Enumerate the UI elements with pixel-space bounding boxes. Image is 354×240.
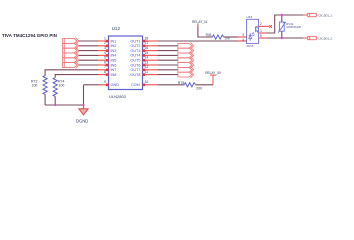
svg-text:CN_DO1_1: CN_DO1_1 <box>319 13 333 17</box>
wire IN7 net to R72 <box>45 70 98 76</box>
svg-text:11: 11 <box>145 70 149 74</box>
svg-text:5: 5 <box>104 56 106 60</box>
wire into R45 <box>206 36 213 38</box>
offpage connector flag IN4 <box>63 52 79 59</box>
pin 13 OUT6 <box>130 60 157 67</box>
offpage connector flag OUT8 <box>178 71 194 78</box>
offpage connector flag OUT4 <box>178 52 194 59</box>
pin 4 opto cathode <box>238 38 247 42</box>
wire OUT7 <box>157 69 178 71</box>
pin 2 opto base with no-connect <box>259 22 272 28</box>
svg-text:IN3: IN3 <box>111 49 117 53</box>
svg-text:10: 10 <box>145 80 149 84</box>
svg-text:18: 18 <box>145 36 149 40</box>
wire ground bus <box>45 104 83 106</box>
junction dot ground bus <box>82 104 84 106</box>
svg-text:OUT2: OUT2 <box>130 44 140 48</box>
junction bottom rail varistor <box>281 37 283 39</box>
wire emitter to bottom rail <box>267 37 304 39</box>
svg-text:OUT8: OUT8 <box>130 73 140 77</box>
resistor R72 <box>43 76 47 106</box>
svg-text:4: 4 <box>104 51 106 55</box>
svg-text:15: 15 <box>145 51 149 55</box>
pin 8 IN8 <box>98 70 116 77</box>
offpage connector flag IN1 <box>63 38 79 45</box>
ground DGND <box>79 105 88 115</box>
offpage connector flag OUT7 <box>178 67 194 74</box>
pin 5 IN5 <box>98 56 116 63</box>
pin 12 OUT7 <box>130 65 157 72</box>
wire GND pin9 to ground <box>84 84 99 86</box>
wire IN2 <box>79 45 98 47</box>
wire R75 to power <box>196 84 213 86</box>
op-amp U12 ULN2803 body <box>109 36 143 90</box>
pin 9 GND <box>98 80 119 87</box>
wire collector to top rail <box>267 15 304 33</box>
svg-text:OUT1: OUT1 <box>130 39 140 43</box>
svg-text:200: 200 <box>196 86 202 90</box>
pin 1 IN1 <box>98 36 116 43</box>
svg-text:CN_DO1_2: CN_DO1_2 <box>319 36 333 40</box>
pin 16 OUT3 <box>130 46 157 53</box>
svg-text:4N35: 4N35 <box>246 44 254 48</box>
svg-text:2: 2 <box>260 22 262 26</box>
pin 17 OUT2 <box>130 41 157 48</box>
pin 6 IN6 <box>98 60 116 67</box>
svg-text:OUT4: OUT4 <box>130 54 140 58</box>
resistor R75 <box>184 83 196 87</box>
wire IN5 <box>79 59 98 61</box>
wire OUT4 <box>157 54 178 56</box>
pin 5 opto emitter <box>259 34 267 38</box>
svg-text:U12: U12 <box>112 26 121 31</box>
wire ground vertical <box>83 85 85 109</box>
wire RELAY_01 stub <box>197 24 199 27</box>
offpage connector flag OUT5 <box>178 57 194 64</box>
wire IN1 <box>79 40 98 42</box>
svg-text:100: 100 <box>59 84 65 88</box>
svg-text:1: 1 <box>104 36 106 40</box>
pin 7 IN7 <box>98 65 116 72</box>
svg-text:5: 5 <box>260 34 262 38</box>
svg-text:OUT5: OUT5 <box>130 59 140 63</box>
svg-text:U13: U13 <box>246 15 252 19</box>
offpage connector flag OUT3 <box>178 47 194 54</box>
svg-text:10D561K20P: 10D561K20P <box>286 26 301 29</box>
wire IN3 <box>79 50 98 52</box>
svg-text:OUT3: OUT3 <box>130 49 140 53</box>
svg-text:100: 100 <box>32 84 38 88</box>
pin 2 IN2 <box>98 41 116 48</box>
pin 14 OUT5 <box>130 56 157 63</box>
svg-text:3: 3 <box>242 33 244 37</box>
wire OUT3 <box>157 50 178 52</box>
svg-text:COM: COM <box>131 83 140 87</box>
power RELAY_5V flag <box>210 75 216 85</box>
svg-text:1: 1 <box>260 29 262 33</box>
svg-text:14: 14 <box>145 56 149 60</box>
wire OUT2 <box>157 45 178 47</box>
junction dot R74 bottom <box>54 104 56 106</box>
wire OUT6 <box>157 64 178 66</box>
svg-text:12: 12 <box>145 65 149 69</box>
svg-text:RELAY_5V: RELAY_5V <box>205 71 222 75</box>
opto LED symbol <box>249 33 255 41</box>
wire OUT8 <box>157 74 178 76</box>
svg-text:OUT7: OUT7 <box>130 68 140 72</box>
svg-text:17: 17 <box>145 41 149 45</box>
varistor RV11 <box>278 15 285 38</box>
offpage connector flag IN5 <box>63 57 79 64</box>
offpage connector flag IN3 <box>63 47 79 54</box>
svg-text:IN4: IN4 <box>111 54 117 58</box>
svg-text:IN7: IN7 <box>111 68 117 72</box>
svg-text:IN1: IN1 <box>111 39 117 43</box>
svg-text:R45: R45 <box>206 33 212 37</box>
svg-text:3: 3 <box>104 46 106 50</box>
offpage connector flag OUT6 <box>178 62 194 69</box>
svg-text:4: 4 <box>242 38 244 42</box>
opto U13 body <box>247 19 259 43</box>
svg-text:ULN2803: ULN2803 <box>109 94 127 99</box>
resistor R74 <box>53 78 57 106</box>
offpage connector flag IN2 <box>63 43 79 50</box>
offpage connector flag OUT2 <box>178 43 194 50</box>
pin 15 OUT4 <box>130 51 157 58</box>
svg-text:IN2: IN2 <box>111 44 117 48</box>
svg-text:TIVA TM4C1294 GPIO PIN: TIVA TM4C1294 GPIO PIN <box>2 33 57 38</box>
svg-text:DGND: DGND <box>76 119 88 124</box>
wire OUT5 <box>157 59 178 61</box>
svg-text:6: 6 <box>104 60 106 64</box>
pin 11 OUT8 <box>130 70 157 77</box>
svg-text:IN6: IN6 <box>111 63 117 67</box>
pin 4 IN4 <box>98 51 116 58</box>
pin 18 OUT1 <box>130 36 157 43</box>
terminal CN_DO1_2 <box>308 36 318 39</box>
pin 1 opto collector <box>259 29 267 33</box>
wire IN8 net to R74 <box>55 75 98 78</box>
pin 3 IN3 <box>98 46 116 53</box>
no-connect X pin2 <box>269 25 272 28</box>
svg-text:7: 7 <box>104 65 106 69</box>
svg-text:2: 2 <box>104 41 106 45</box>
terminal CN_DO1_1 <box>308 13 318 16</box>
wire IN6 <box>79 64 98 66</box>
junction top rail varistor <box>281 14 283 16</box>
wire COM to R75 <box>157 84 184 86</box>
offpage connector flag IN6 <box>63 62 79 69</box>
svg-text:16: 16 <box>145 46 149 50</box>
pin 10 COM <box>131 80 157 87</box>
svg-text:IN5: IN5 <box>111 59 117 63</box>
svg-text:OUT6: OUT6 <box>130 63 140 67</box>
wire R45 to opto anode <box>224 36 238 38</box>
svg-text:13: 13 <box>145 60 149 64</box>
svg-text:9: 9 <box>104 80 106 84</box>
resistor R45 <box>212 35 223 39</box>
svg-text:RELAY_01: RELAY_01 <box>192 20 208 24</box>
svg-text:IN8: IN8 <box>111 73 117 77</box>
svg-text:8: 8 <box>104 70 106 74</box>
svg-text:GND: GND <box>111 83 120 87</box>
svg-text:R75: R75 <box>178 81 184 85</box>
wire IN4 <box>79 54 98 56</box>
wire OUT1 net <box>157 40 237 42</box>
pin 3 opto anode <box>238 33 247 37</box>
opto transistor symbol <box>255 26 258 33</box>
